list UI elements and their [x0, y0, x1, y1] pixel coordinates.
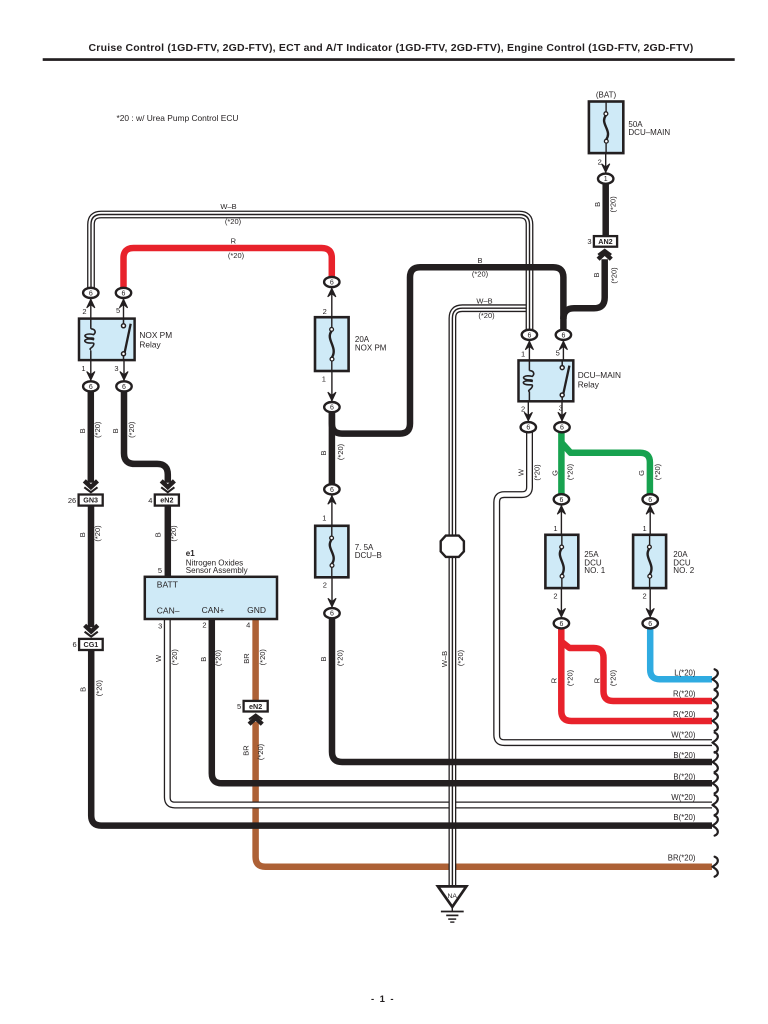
arrow into node below DCU-MAIN relay pin3 — [558, 412, 566, 421]
svg-text:2: 2 — [521, 404, 525, 413]
svg-text:B: B — [593, 202, 602, 207]
arrow into node above 20A NOX PM fuse — [328, 288, 336, 297]
pin wire 7.5A DCU-B fuse bottom — [331, 577, 333, 608]
svg-text:eN2: eN2 — [249, 702, 262, 711]
arrow into node below (BAT) 50A fuse — [602, 164, 610, 173]
svg-text:W–B: W–B — [440, 651, 449, 667]
svg-text:1: 1 — [81, 364, 85, 373]
svg-text:6: 6 — [561, 332, 565, 339]
arrow into node above NOX PM relay pin2 — [87, 299, 95, 308]
svg-text:DCU–MAIN: DCU–MAIN — [628, 128, 670, 137]
svg-text:5: 5 — [556, 349, 560, 358]
node 6 below 20A NOX PM fuse — [324, 402, 339, 412]
arrow into node below 7.5A DCU-B fuse — [328, 598, 336, 607]
wire BR from sensor GND to eN2 — [252, 619, 259, 702]
wire B from 20A NOX PM fuse down to 7.5A DCU-B fuse — [329, 412, 336, 485]
junction arrows into eN2 pin4 — [161, 481, 174, 492]
svg-text:6: 6 — [527, 332, 531, 339]
pin wire 25A DCU NO.1 fuse top — [560, 504, 562, 535]
connector eN2 pin4 — [148, 495, 179, 506]
node 6 above NOX PM relay pin5 — [116, 288, 131, 298]
node 6 below NOX PM relay pin3 — [116, 381, 131, 391]
fuse 25A DCU NO.1 — [545, 535, 578, 588]
wire W-B from octagon junction down to ground NA — [448, 557, 456, 887]
svg-text:6: 6 — [89, 290, 93, 297]
ground symbol bars — [451, 907, 453, 911]
connector AN2 — [587, 236, 617, 247]
fuse 7.5A DCU-B — [315, 526, 348, 578]
svg-text:e1: e1 — [186, 549, 195, 558]
svg-text:2: 2 — [553, 591, 557, 600]
junction arrows into CG1 — [85, 625, 98, 636]
wire B from NOX PM relay pin1 to GN3 — [88, 391, 95, 483]
relay DCU-MAIN — [519, 360, 574, 401]
svg-text:BR: BR — [242, 745, 251, 756]
svg-text:B: B — [111, 428, 120, 433]
svg-text:GND: GND — [247, 605, 266, 615]
svg-text:B: B — [78, 428, 87, 433]
svg-text:2: 2 — [643, 591, 647, 600]
terminator brace wire B CAN+ right edge — [713, 773, 718, 793]
svg-text:2: 2 — [323, 581, 327, 590]
svg-text:6: 6 — [330, 405, 334, 412]
svg-text:R: R — [231, 236, 237, 245]
wire L blue from 20A DCU NO.2 fuse to right edge L(*20) — [650, 628, 712, 680]
pin wire DCU-MAIN relay pin5 — [562, 340, 564, 361]
svg-text:R: R — [550, 677, 559, 683]
svg-text:(*20): (*20) — [214, 649, 223, 666]
arrow into node below 20A DCU NO.2 fuse — [646, 608, 654, 617]
svg-text:1: 1 — [643, 524, 647, 533]
svg-text:- 1 -: - 1 - — [371, 994, 395, 1005]
svg-text:6: 6 — [648, 621, 652, 628]
connector GN3 — [68, 495, 103, 506]
svg-text:W: W — [517, 468, 526, 476]
octagon junction on W-B wire — [441, 536, 464, 557]
svg-text:B: B — [477, 256, 482, 265]
pin wire NOX PM relay pin2 — [90, 298, 92, 319]
svg-text:(*20): (*20) — [228, 251, 245, 260]
svg-text:1: 1 — [553, 524, 557, 533]
arrow into node above DCU-MAIN relay pin1 — [525, 341, 533, 350]
svg-text:B(*20): B(*20) — [673, 751, 696, 760]
svg-text:Relay: Relay — [578, 380, 600, 390]
wire B from CG1 to right edge B(*20) — [91, 650, 712, 826]
svg-text:6: 6 — [122, 290, 126, 297]
svg-text:6: 6 — [526, 425, 530, 432]
node 6 above 7.5A DCU-B fuse — [324, 484, 339, 494]
wire R branch to right edge R(*20) upper — [561, 642, 712, 702]
arrow into node below DCU-MAIN relay pin2 — [524, 412, 532, 421]
svg-text:G: G — [637, 470, 646, 476]
terminator brace wire B CG1 right edge — [713, 816, 718, 836]
wire B from eN2 to sensor BATT pin5 — [165, 506, 172, 577]
connector eN2 pin5 — [237, 701, 268, 712]
svg-text:B: B — [154, 532, 163, 537]
svg-text:1: 1 — [521, 350, 525, 359]
arrow into node below NOX PM relay pin1 — [87, 372, 95, 381]
wire B main loop 20A NOX PM fuse to DCU-MAIN relay pin5 — [332, 267, 564, 433]
svg-text:6: 6 — [559, 497, 563, 504]
terminator brace wire W DCU-MAIN pin2 right edge — [713, 733, 718, 753]
terminator brace wire W CAN- right edge — [713, 795, 718, 815]
svg-text:(*20): (*20) — [170, 649, 179, 666]
junction arrows into eN2 pin5 — [249, 715, 262, 725]
svg-text:(*20): (*20) — [609, 669, 618, 686]
svg-text:B: B — [78, 532, 87, 537]
arrow into node below 20A NOX PM fuse — [328, 392, 336, 401]
pin wire DCU-MAIN relay pin2 — [527, 401, 529, 422]
svg-text:NOX PM: NOX PM — [355, 344, 387, 353]
svg-text:Relay: Relay — [139, 339, 161, 349]
wire W from sensor CAN- to right edge W(*20) — [167, 619, 712, 806]
pin wire NOX PM relay pin5 — [123, 298, 125, 319]
svg-text:eN2: eN2 — [160, 496, 173, 505]
svg-text:(*20): (*20) — [456, 649, 465, 666]
svg-text:6: 6 — [330, 611, 334, 618]
node 6 below 25A DCU NO.1 fuse — [554, 618, 569, 628]
svg-text:B(*20): B(*20) — [673, 813, 696, 822]
svg-text:(*20): (*20) — [566, 463, 575, 480]
arrow into node above NOX PM relay pin5 — [119, 299, 127, 308]
svg-text:B: B — [78, 687, 87, 692]
svg-text:2: 2 — [323, 307, 327, 316]
svg-text:BR: BR — [242, 653, 251, 664]
svg-text:NA: NA — [447, 893, 457, 900]
wire R main from 25A DCU NO.1 fuse to right edge R(*20) — [561, 628, 712, 722]
svg-text:3: 3 — [158, 621, 162, 630]
wire B from (BAT) 50A fuse to AN2 — [602, 184, 609, 236]
svg-text:1: 1 — [322, 514, 326, 523]
svg-text:(*20): (*20) — [169, 525, 178, 542]
svg-text:2: 2 — [598, 157, 602, 166]
pin wire 25A DCU NO.1 fuse bottom — [560, 588, 562, 618]
svg-text:Sensor Assembly: Sensor Assembly — [186, 566, 248, 575]
svg-text:B: B — [319, 656, 328, 661]
wire R from NOX PM relay pin5 to 20A NOX PM fuse — [124, 248, 332, 290]
arrow into node above 25A DCU NO.1 fuse — [557, 506, 565, 515]
svg-text:DCU–B: DCU–B — [355, 551, 382, 560]
svg-text:(*20): (*20) — [533, 464, 542, 481]
arrow into node below NOX PM relay pin3 — [120, 372, 128, 381]
wire W-B branch to vertical ground run — [452, 308, 529, 536]
pin wire 20A NOX PM fuse top — [331, 287, 333, 318]
arrow into node above DCU-MAIN relay pin5 — [559, 341, 567, 350]
junction arrows into AN2 — [598, 250, 611, 259]
svg-text:W(*20): W(*20) — [671, 793, 696, 802]
svg-text:(*20): (*20) — [93, 421, 102, 438]
wire B from sensor CAN+ to right edge B(*20) — [212, 619, 712, 784]
svg-text:R: R — [593, 677, 602, 683]
svg-text:5: 5 — [158, 566, 162, 575]
wire B from NOX PM relay pin3 to eN2 — [124, 391, 168, 483]
svg-text:R(*20): R(*20) — [673, 710, 696, 719]
component e1 Nitrogen Oxides Sensor Assembly box — [145, 577, 277, 619]
pin wire 20A DCU NO.2 fuse top — [649, 504, 651, 535]
terminator brace wire B DCU-B right edge — [713, 752, 718, 772]
node 6 below 7.5A DCU-B fuse — [324, 608, 339, 618]
svg-text:B: B — [592, 272, 601, 277]
pin wire 20A DCU NO.2 fuse bottom — [649, 588, 651, 618]
svg-text:(*20): (*20) — [609, 267, 618, 284]
wire B from GN3 down to CG1 — [88, 506, 95, 627]
svg-text:(*20): (*20) — [258, 649, 267, 666]
terminator brace wire R lower right edge — [713, 711, 718, 731]
svg-text:(*20): (*20) — [94, 679, 103, 696]
svg-text:NOX PM: NOX PM — [139, 330, 172, 340]
pin wire 7.5A DCU-B fuse top — [331, 494, 333, 526]
node 6 above NOX PM relay pin2 — [83, 288, 98, 298]
svg-text:3: 3 — [559, 404, 563, 413]
junction arrows into GN3 — [84, 481, 97, 492]
svg-text:1: 1 — [604, 176, 608, 183]
svg-text:4: 4 — [246, 621, 250, 630]
title underline — [43, 58, 735, 61]
svg-text:(*20): (*20) — [608, 196, 617, 213]
svg-text:R(*20): R(*20) — [673, 690, 696, 699]
svg-text:5: 5 — [237, 702, 241, 711]
svg-text:(*20): (*20) — [336, 649, 345, 666]
svg-text:(BAT): (BAT) — [596, 91, 617, 100]
svg-text:B: B — [199, 657, 208, 662]
pin wire (BAT) 50A fuse bottom — [605, 153, 607, 174]
svg-text:26: 26 — [68, 496, 76, 505]
pin wire DCU-MAIN relay pin3 — [561, 401, 563, 422]
node 6 below NOX PM relay pin1 — [83, 381, 98, 391]
svg-text:(*20): (*20) — [566, 669, 575, 686]
svg-text:6: 6 — [559, 621, 563, 628]
wire G from DCU-MAIN relay pin3 down to 25A fuse — [558, 432, 565, 496]
pin wire NOX PM relay pin3 — [123, 360, 125, 382]
svg-text:W–B: W–B — [220, 202, 236, 211]
svg-text:2: 2 — [82, 307, 86, 316]
svg-text:6: 6 — [73, 640, 77, 649]
svg-text:W: W — [154, 654, 163, 662]
terminator brace wire R upper right edge — [713, 690, 718, 710]
svg-text:(*20): (*20) — [256, 743, 265, 760]
fuse 20A DCU NO.2 — [633, 535, 666, 588]
svg-text:1: 1 — [322, 375, 326, 384]
svg-text:DCU–MAIN: DCU–MAIN — [578, 370, 621, 380]
node 6 above 20A NOX PM fuse — [324, 277, 339, 287]
node 6 below DCU-MAIN relay pin2 — [521, 422, 536, 432]
svg-text:*20 : w/ Urea Pump Control ECU: *20 : w/ Urea Pump Control ECU — [117, 113, 239, 123]
node 6 above DCU-MAIN relay pin5 — [556, 330, 571, 340]
svg-text:BR(*20): BR(*20) — [668, 853, 696, 862]
pin wire 20A NOX PM fuse bottom — [331, 371, 333, 402]
terminator brace wire L to right edge — [713, 669, 718, 689]
svg-text:CAN–: CAN– — [157, 606, 180, 616]
wire B from AN2 down to DCU-MAIN relay pin5 — [563, 259, 604, 319]
svg-text:6: 6 — [648, 497, 652, 504]
arrow into node above 20A DCU NO.2 fuse — [646, 506, 654, 515]
svg-text:(*20): (*20) — [225, 217, 242, 226]
svg-text:4: 4 — [148, 496, 152, 505]
svg-text:6: 6 — [122, 384, 126, 391]
svg-text:6: 6 — [330, 487, 334, 494]
svg-text:Cruise Control (1GD-FTV, 2GD-F: Cruise Control (1GD-FTV, 2GD-FTV), ECT a… — [89, 42, 694, 54]
svg-text:(*20): (*20) — [336, 443, 345, 460]
svg-text:(*20): (*20) — [472, 270, 489, 279]
svg-text:B: B — [319, 450, 328, 455]
node 6 below DCU-MAIN relay pin3 — [554, 422, 569, 432]
arrow into node below 25A DCU NO.1 fuse — [557, 608, 565, 617]
svg-text:AN2: AN2 — [598, 237, 612, 246]
svg-text:6: 6 — [89, 384, 93, 391]
svg-text:6: 6 — [330, 280, 334, 287]
node 6 above 20A DCU NO.2 fuse — [643, 494, 658, 504]
wire W-B top run from NOX PM relay pin2 to DCU-MAIN relay pin1 — [91, 215, 530, 331]
pin wire NOX PM relay pin1 — [90, 360, 92, 382]
svg-text:(*20): (*20) — [478, 311, 495, 320]
fuse 20A NOX PM — [315, 317, 349, 371]
svg-text:NO. 2: NO. 2 — [673, 566, 694, 575]
svg-text:NO. 1: NO. 1 — [584, 566, 605, 575]
svg-text:BATT: BATT — [157, 579, 178, 589]
svg-text:(*20): (*20) — [93, 525, 102, 542]
svg-text:(*20): (*20) — [653, 463, 662, 480]
fuse 50A DCU-MAIN (BAT) — [589, 102, 623, 154]
svg-text:5: 5 — [116, 306, 120, 315]
relay NOX PM — [79, 319, 135, 361]
terminator brace wire BR right edge — [713, 857, 718, 877]
svg-text:3: 3 — [114, 364, 118, 373]
svg-text:B(*20): B(*20) — [673, 772, 696, 781]
svg-text:6: 6 — [560, 425, 564, 432]
arrow into node above 7.5A DCU-B fuse — [328, 496, 336, 505]
svg-text:GN3: GN3 — [83, 496, 98, 505]
svg-text:(*20): (*20) — [127, 421, 136, 438]
svg-text:2: 2 — [202, 621, 206, 630]
wire BR from eN2 to right edge BR(*20) — [256, 722, 712, 867]
node 6 above 25A DCU NO.1 fuse — [554, 494, 569, 504]
node 6 above DCU-MAIN relay pin1 — [522, 330, 537, 340]
svg-text:W–B: W–B — [476, 297, 492, 306]
svg-text:3: 3 — [587, 237, 591, 246]
svg-text:W(*20): W(*20) — [671, 731, 696, 740]
svg-text:CAN+: CAN+ — [202, 605, 225, 615]
wire G branch to 20A DCU NO.2 fuse — [561, 443, 650, 496]
svg-text:L(*20): L(*20) — [674, 668, 696, 677]
ground NA triangle — [438, 886, 467, 907]
pin wire DCU-MAIN relay pin1 — [528, 340, 530, 361]
node 6 below 20A DCU NO.2 fuse — [643, 618, 658, 628]
wire W from DCU-MAIN relay pin2 to right edge W(*20) — [497, 432, 712, 743]
connector CG1 — [73, 639, 103, 650]
svg-text:CG1: CG1 — [84, 640, 99, 649]
svg-text:G: G — [550, 470, 559, 476]
node 1 below (BAT) 50A fuse — [598, 174, 613, 184]
wire B from 7.5A DCU-B fuse to right edge B(*20) — [332, 618, 712, 762]
